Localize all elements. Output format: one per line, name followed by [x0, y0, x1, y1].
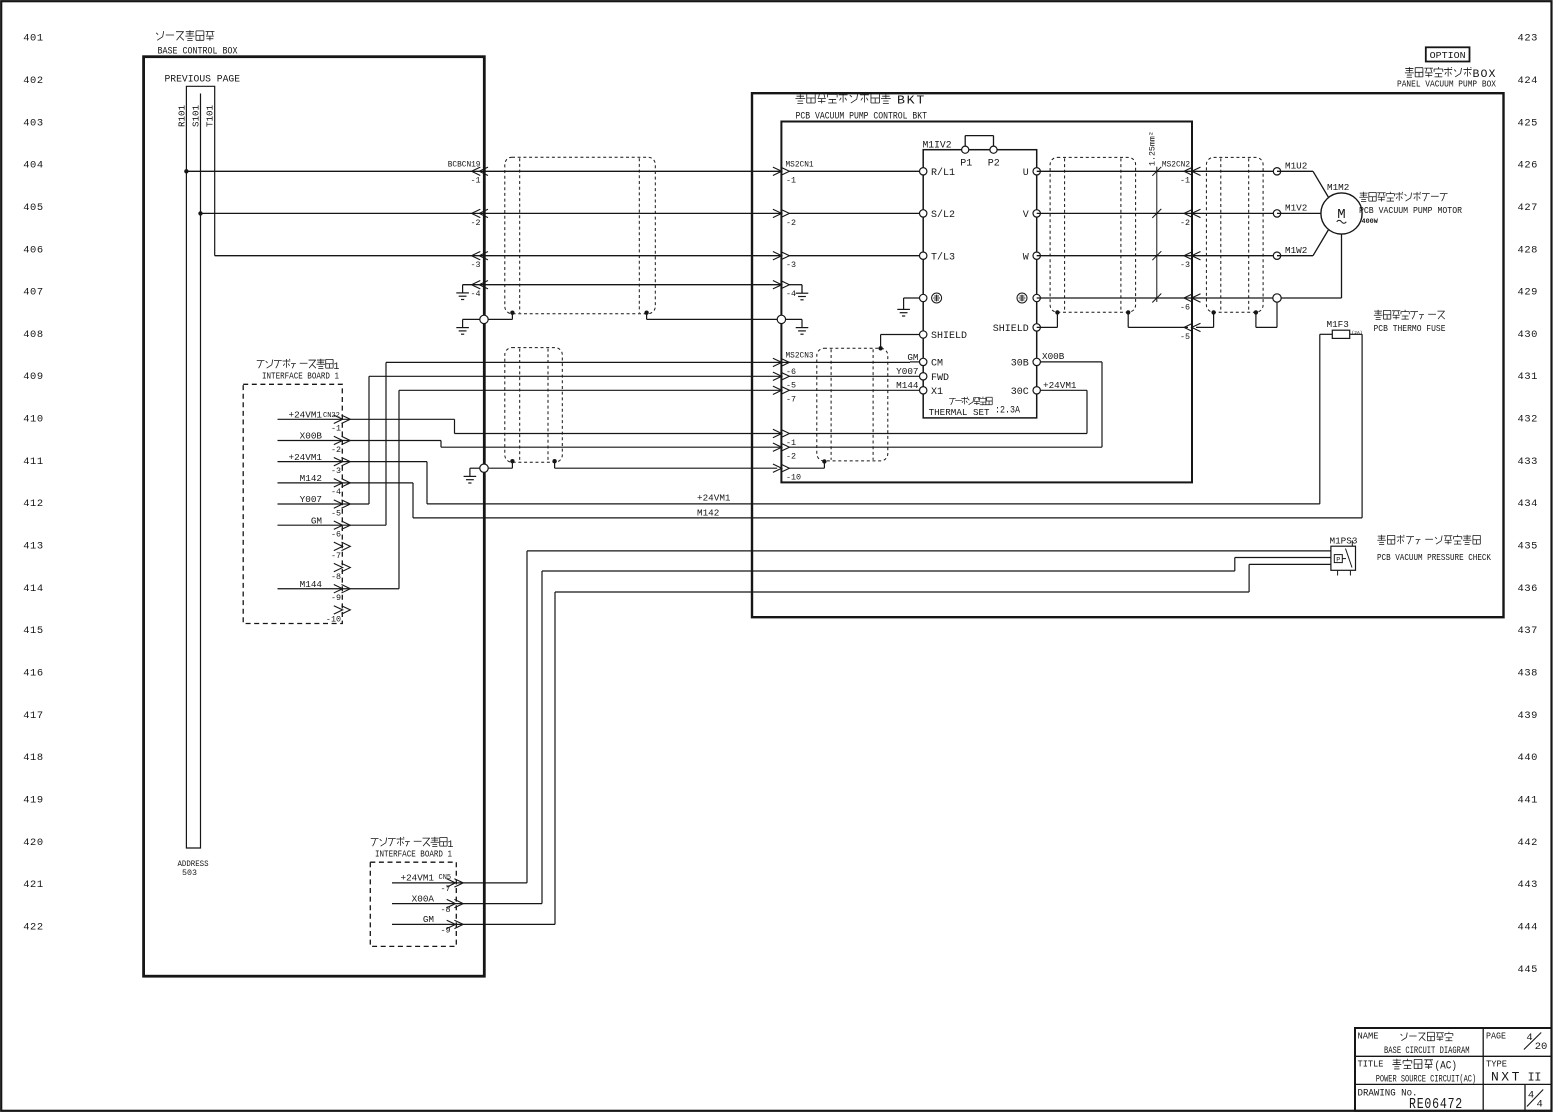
svg-text:429: 429	[1518, 287, 1539, 299]
svg-text:440: 440	[1518, 752, 1539, 764]
svg-text:30B: 30B	[1011, 359, 1029, 370]
svg-text:(2A): (2A)	[1352, 330, 1363, 336]
svg-text:436: 436	[1518, 583, 1539, 595]
svg-text:P1: P1	[960, 158, 972, 169]
svg-text:BASE CONTROL BOX: BASE CONTROL BOX	[158, 47, 238, 58]
svg-text:-1: -1	[786, 176, 796, 186]
svg-text:-7: -7	[331, 551, 341, 561]
svg-text:R101: R101	[176, 104, 187, 127]
svg-text:407: 407	[23, 287, 44, 299]
svg-text:X00A: X00A	[412, 893, 435, 904]
svg-text:-8: -8	[331, 572, 341, 582]
svg-text:439: 439	[1518, 710, 1539, 722]
svg-text:413: 413	[23, 541, 44, 553]
svg-text:X00B: X00B	[1042, 351, 1065, 362]
svg-text:-3: -3	[786, 260, 796, 270]
svg-text:-4: -4	[470, 289, 480, 299]
svg-text:M1F3: M1F3	[1327, 319, 1349, 330]
svg-text:-6: -6	[331, 530, 341, 540]
svg-text:20: 20	[1535, 1041, 1548, 1053]
svg-text:M1PS3: M1PS3	[1330, 535, 1358, 546]
svg-text:II: II	[1528, 1071, 1541, 1085]
svg-text:PCB THERMO FUSE: PCB THERMO FUSE	[1374, 324, 1446, 334]
svg-text:417: 417	[23, 710, 44, 722]
svg-text:-4: -4	[331, 487, 341, 497]
svg-text:NAME: NAME	[1358, 1032, 1379, 1042]
svg-text:MS2CN1: MS2CN1	[786, 162, 814, 170]
svg-text:444: 444	[1518, 922, 1539, 934]
svg-text:-2: -2	[786, 218, 796, 228]
svg-text:BKT: BKT	[897, 95, 926, 108]
svg-text:FWD: FWD	[931, 373, 949, 384]
svg-text:430: 430	[1518, 329, 1539, 341]
svg-text:X1: X1	[931, 387, 943, 398]
svg-text:T101: T101	[205, 104, 216, 127]
svg-text:T/L3: T/L3	[931, 251, 955, 263]
svg-text:427: 427	[1518, 202, 1539, 214]
svg-text:4: 4	[1537, 1099, 1543, 1111]
svg-text:402: 402	[23, 75, 44, 87]
svg-text:-6: -6	[1180, 302, 1190, 312]
svg-text:404: 404	[23, 160, 44, 172]
svg-text:-10: -10	[326, 614, 341, 624]
svg-text:403: 403	[23, 117, 44, 129]
svg-text:-7: -7	[440, 884, 450, 894]
svg-text:M1W2: M1W2	[1285, 245, 1307, 256]
svg-text:PANEL VACUUM PUMP BOX: PANEL VACUUM PUMP BOX	[1397, 79, 1497, 89]
svg-text:-1: -1	[470, 176, 480, 186]
svg-text:INTERFACE BOARD 1: INTERFACE BOARD 1	[375, 849, 452, 860]
svg-text:408: 408	[23, 329, 44, 341]
svg-text:419: 419	[23, 795, 44, 807]
svg-text:421: 421	[23, 879, 44, 891]
svg-text:434: 434	[1518, 498, 1539, 510]
svg-text:411: 411	[23, 456, 44, 468]
svg-text:GM: GM	[423, 914, 434, 925]
svg-text:-3: -3	[1180, 260, 1190, 270]
svg-text:TITLE: TITLE	[1358, 1060, 1384, 1070]
svg-text:R/L1: R/L1	[931, 167, 955, 179]
svg-text:MS2CN2: MS2CN2	[1162, 162, 1190, 170]
svg-text:PCB VACUUM PUMP MOTOR: PCB VACUUM PUMP MOTOR	[1359, 206, 1463, 216]
svg-text:441: 441	[1518, 795, 1539, 807]
svg-text:424: 424	[1518, 75, 1539, 87]
svg-text:433: 433	[1518, 456, 1539, 468]
svg-text:THERMAL SET: THERMAL SET	[929, 407, 990, 418]
svg-text:412: 412	[23, 498, 44, 510]
svg-text:CN5: CN5	[439, 874, 452, 882]
svg-text:Y007: Y007	[896, 366, 918, 377]
svg-text:442: 442	[1518, 837, 1539, 849]
svg-text:S/L2: S/L2	[931, 209, 955, 221]
svg-text:NXT: NXT	[1491, 1070, 1522, 1085]
svg-text:-2: -2	[1180, 218, 1190, 228]
svg-text:TYPE: TYPE	[1486, 1060, 1507, 1070]
svg-text:-2: -2	[786, 452, 796, 462]
svg-text:418: 418	[23, 752, 44, 764]
svg-text:P2: P2	[988, 158, 1000, 169]
svg-text:GM: GM	[907, 352, 918, 363]
svg-text:414: 414	[23, 583, 44, 595]
svg-text:RE06472: RE06472	[1409, 1097, 1463, 1113]
svg-text:-7: -7	[786, 395, 796, 405]
svg-text:+24VM1: +24VM1	[1043, 380, 1077, 391]
svg-text:+24VM1: +24VM1	[697, 493, 731, 504]
svg-text:428: 428	[1518, 244, 1539, 256]
svg-text:M142: M142	[697, 508, 719, 519]
svg-text:M1V2: M1V2	[1285, 203, 1307, 214]
svg-text:422: 422	[23, 922, 44, 934]
svg-text:SHIELD: SHIELD	[931, 331, 967, 342]
svg-text:437: 437	[1518, 625, 1539, 637]
svg-text:CM: CM	[931, 359, 943, 370]
svg-text:425: 425	[1518, 117, 1539, 129]
svg-text::2.3A: :2.3A	[995, 405, 1021, 417]
svg-text:SHIELD: SHIELD	[993, 324, 1029, 335]
svg-text:POWER SOURCE CIRCUIT(AC): POWER SOURCE CIRCUIT(AC)	[1376, 1074, 1477, 1086]
svg-text:503: 503	[182, 869, 197, 878]
svg-text:30C: 30C	[1011, 387, 1029, 398]
svg-text:-9: -9	[331, 593, 341, 603]
svg-text:443: 443	[1518, 879, 1539, 891]
svg-text:-1: -1	[1180, 176, 1190, 186]
svg-text:-2: -2	[331, 445, 341, 455]
svg-text:U: U	[1023, 168, 1029, 179]
svg-text:-3: -3	[331, 466, 341, 476]
svg-text:416: 416	[23, 668, 44, 680]
svg-text:PREVIOUS PAGE: PREVIOUS PAGE	[165, 75, 241, 86]
svg-text:-1: -1	[331, 424, 341, 434]
svg-text:438: 438	[1518, 668, 1539, 680]
svg-text:PCB VACUUM PRESSURE CHECK: PCB VACUUM PRESSURE CHECK	[1377, 553, 1491, 563]
svg-text:-5: -5	[1180, 332, 1190, 342]
svg-text:M144: M144	[896, 380, 919, 391]
svg-text:401: 401	[23, 33, 44, 45]
svg-text:INTERFACE BOARD 1: INTERFACE BOARD 1	[262, 371, 339, 382]
svg-text:M1U2: M1U2	[1285, 161, 1307, 172]
svg-text:-4: -4	[786, 289, 796, 299]
svg-text:PCB VACUUM PUMP CONTROL BKT: PCB VACUUM PUMP CONTROL BKT	[796, 112, 928, 123]
svg-text:431: 431	[1518, 371, 1539, 383]
svg-text:S101: S101	[191, 104, 202, 127]
svg-text:435: 435	[1518, 541, 1539, 553]
svg-text:-8: -8	[440, 905, 450, 915]
svg-text:MS2CN3: MS2CN3	[786, 352, 814, 360]
svg-text:ADDRESS: ADDRESS	[178, 860, 209, 869]
svg-text:V: V	[1023, 210, 1029, 221]
svg-text:M1M2: M1M2	[1327, 182, 1349, 193]
svg-text:-2: -2	[470, 218, 480, 228]
svg-text:W: W	[1023, 252, 1029, 263]
svg-text:445: 445	[1518, 964, 1539, 976]
svg-text:405: 405	[23, 202, 44, 214]
svg-text:-10: -10	[786, 473, 801, 483]
svg-text:420: 420	[23, 837, 44, 849]
svg-text:-5: -5	[331, 508, 341, 518]
svg-text:OPTION: OPTION	[1430, 50, 1466, 61]
svg-text:+24VM1: +24VM1	[401, 873, 435, 884]
svg-text:400W: 400W	[1362, 218, 1379, 226]
svg-text:P: P	[1336, 556, 1340, 564]
svg-text:410: 410	[23, 414, 44, 426]
svg-text:1.25mm²: 1.25mm²	[1149, 131, 1158, 166]
svg-text:423: 423	[1518, 33, 1539, 45]
svg-text:BCBCN19: BCBCN19	[448, 162, 481, 170]
svg-text:-3: -3	[470, 260, 480, 270]
svg-text:M1IV2: M1IV2	[923, 140, 952, 151]
svg-text:432: 432	[1518, 414, 1539, 426]
svg-text:PAGE: PAGE	[1486, 1032, 1506, 1042]
svg-text:406: 406	[23, 244, 44, 256]
svg-text:426: 426	[1518, 160, 1539, 172]
svg-text:409: 409	[23, 371, 44, 383]
svg-text:415: 415	[23, 625, 44, 637]
svg-text:-9: -9	[440, 926, 450, 936]
svg-text:(AC): (AC)	[1435, 1061, 1458, 1073]
svg-text:BASE CIRCUIT DIAGRAM: BASE CIRCUIT DIAGRAM	[1384, 1046, 1470, 1057]
